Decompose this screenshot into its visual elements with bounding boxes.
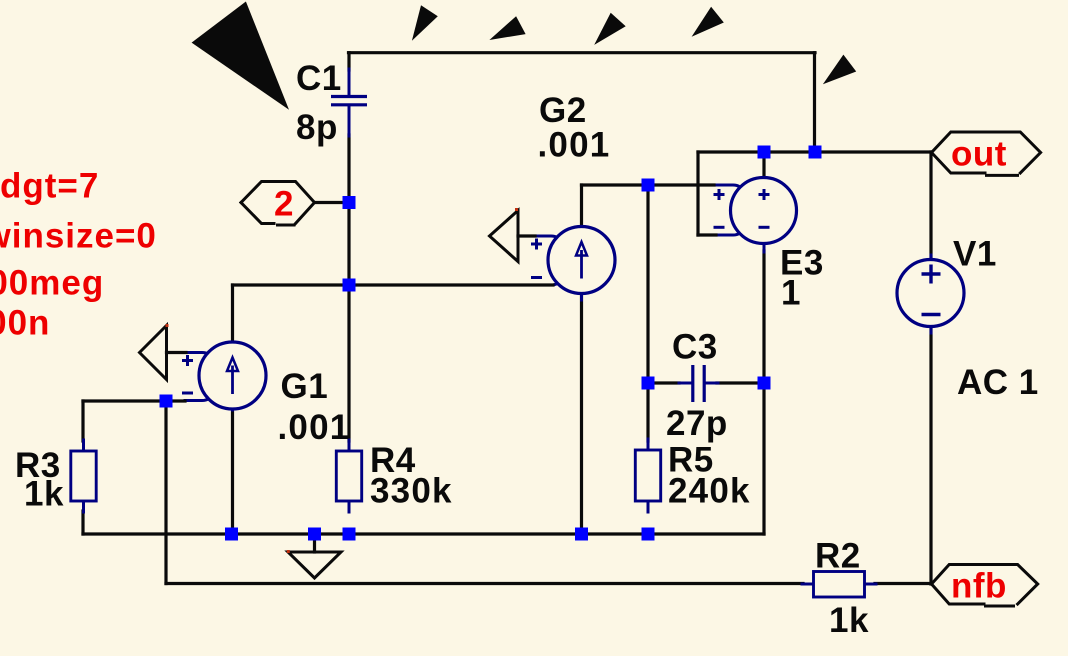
svg-text:dgt=7: dgt=7 [0,167,99,206]
svg-text:00n: 00n [0,303,50,342]
svg-text:2: 2 [274,185,294,224]
svg-text:AC 1: AC 1 [957,363,1039,402]
svg-text:R2: R2 [815,537,861,576]
svg-text:330k: 330k [370,472,453,511]
svg-text:1k: 1k [24,475,64,514]
svg-text:C3: C3 [672,327,718,366]
svg-text:.001: .001 [278,408,351,447]
svg-text:.001: .001 [538,126,611,165]
svg-text:8p: 8p [296,108,338,147]
svg-text:1: 1 [781,274,801,313]
svg-text:winsize=0: winsize=0 [0,217,157,256]
svg-text:27p: 27p [666,404,728,443]
svg-text:nfb: nfb [951,567,1007,606]
svg-text:240k: 240k [668,471,751,510]
svg-text:V1: V1 [953,235,997,274]
svg-text:C1: C1 [296,59,342,98]
svg-text:00meg: 00meg [0,264,104,303]
svg-text:G2: G2 [539,91,587,130]
svg-text:G1: G1 [281,367,329,406]
svg-text:1k: 1k [829,601,869,640]
svg-text:out: out [951,135,1007,174]
